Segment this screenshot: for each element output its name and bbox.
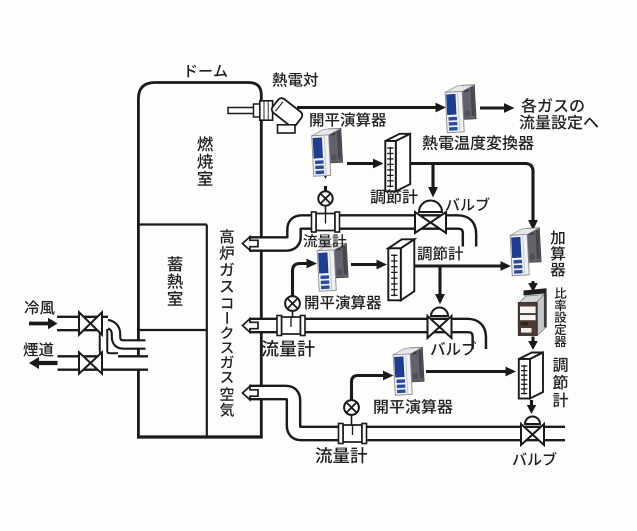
signal: adder M3 down to ratio setter R1 <box>531 281 534 285</box>
signal: M5 to controller B3 <box>426 370 508 373</box>
transmitter D3 (circle-X) on F3 <box>344 400 359 415</box>
arrowhead into M4 <box>307 259 318 269</box>
signal: M1 to gas flow setting <box>480 106 506 109</box>
label: 流量設定へ (to flow setting of each gas) <box>520 115 599 130</box>
arrowhead into V3 dome <box>527 405 536 414</box>
label: 調節計 (controller B3) <box>553 358 568 408</box>
label: 冷風 (cold blast) <box>24 300 54 314</box>
pipe P1: blast furnace gas line <box>249 222 470 247</box>
module M4: square root extractor 2 (blue DIN unit) <box>317 243 349 291</box>
internal divider: vertical (gas column) <box>206 225 208 438</box>
control valve V2 (COG) with diaphragm <box>428 316 440 338</box>
label: 空気 (air) <box>220 387 234 417</box>
valve: flue butterfly valve <box>79 352 91 374</box>
signal: M4 to controller B2 <box>351 263 379 266</box>
signal branch: down to valve V2 <box>438 266 441 296</box>
label: 熱電対 (thermocouple) <box>273 72 318 86</box>
pipe P2: coke oven gas line <box>249 326 479 350</box>
label: 蓄熱室 (regenerator chamber) <box>167 256 182 305</box>
controller B3 (調節計) 3D slab with scale <box>519 353 543 360</box>
signal: R1 down to controller B3 <box>531 337 534 342</box>
arrowhead into M3 left <box>501 261 512 271</box>
signal: D3 to square root extractor M5 <box>352 376 387 402</box>
module M3: adder (blue DIN unit) <box>510 228 542 276</box>
label: バルブ (valve V3) <box>513 452 557 466</box>
stove bottom edge (thicker) <box>137 435 263 438</box>
controller B1 (調節計) 3D slab with scale <box>385 134 410 141</box>
open arrow: blast furnace gas into stove <box>243 237 259 251</box>
label: バルブ (valve V1) <box>446 197 490 211</box>
arrowhead into M5 <box>383 371 394 381</box>
signal: D1 up to M2 <box>324 186 327 192</box>
valve: cold blast butterfly valve <box>79 312 91 335</box>
label: バルブ (valve V2) <box>431 341 476 355</box>
arrowhead to text <box>504 103 515 113</box>
label: 高炉ガス (blast furnace gas) <box>220 229 234 292</box>
module M1: thermocouple temperature converter (blue DIN unit) <box>445 85 477 133</box>
label: 加算器 (adder) <box>550 230 565 276</box>
ratio setter R1 (比率設定器) dark unit <box>518 288 546 335</box>
label: 各ガスの <box>521 98 583 113</box>
signal: B3 down to valve V3 <box>530 400 533 406</box>
signal: B2 output to adder M3 <box>415 264 505 267</box>
arrow: cold blast in <box>29 318 58 329</box>
stem D3 to F3 <box>351 414 353 425</box>
flow meter F1 (blast furnace gas) <box>316 214 335 231</box>
arrowhead into B1 <box>373 159 384 169</box>
hot blast stove outer shell <box>138 83 261 438</box>
transmitter D1 (circle-X) on F1 <box>318 191 332 205</box>
arrowhead into R1 top <box>528 283 538 292</box>
open arrow: coke oven gas into stove <box>243 319 259 333</box>
transmitter D2 (circle-X) on F2 <box>285 296 300 311</box>
label: 熱電温度変換器 (TC temperature converter) <box>423 135 534 150</box>
thermocouple probe and head <box>228 96 304 133</box>
label: コークスガス (coke oven gas) <box>221 298 234 383</box>
arrowhead into M2 bottom <box>321 170 330 180</box>
stem D1 to F1 <box>325 205 327 214</box>
label: 流量計 (flow meter F3) <box>316 447 368 463</box>
internal divider: combustion/regenerator horizontal <box>138 223 206 225</box>
stem D2 to F2 <box>292 310 294 318</box>
module M2: square root extractor 1 (blue DIN unit) <box>311 128 343 176</box>
label: 開平演算器 (square root extractor 2) <box>305 295 381 310</box>
signal: thermocouple to temperature converter <box>297 106 438 109</box>
label: 燃焼室 (combustion chamber) <box>197 136 213 186</box>
label: 流量計 (flow meter F2) <box>262 340 315 357</box>
label: 調節計 (controller B1) <box>371 189 418 204</box>
arrowhead into adder M3 top <box>528 220 538 231</box>
arrowhead into B3 top <box>528 341 538 350</box>
open arrow: air into stove <box>243 386 259 400</box>
label: 調節計 (controller B2) <box>418 246 464 261</box>
label: 流量計 (flow meter F1) <box>303 234 346 247</box>
label: 開平演算器 (square root extractor 1) <box>310 112 386 127</box>
arrowhead into M1 <box>436 103 447 113</box>
internal divider: regenerator bottom <box>138 329 206 331</box>
module M5: square root extractor 3 (blue DIN unit) <box>393 347 425 395</box>
pipe: flue line <box>58 355 149 371</box>
control valve V1 (BFG) with diaphragm <box>415 212 431 233</box>
label: 比率設定器 (ratio setter) <box>554 287 566 347</box>
pipe P3: air line <box>249 393 565 434</box>
label: ドーム (dome) <box>187 65 227 77</box>
label: 開平演算器 (square root extractor 3) <box>374 399 452 414</box>
pipe: crossover from cold blast line down to flue line <box>104 329 119 357</box>
arrowhead into V2 dome <box>435 294 445 305</box>
signal: D2 to square root extractor M4 <box>293 264 310 297</box>
flow meter F3 (air) <box>343 425 362 442</box>
arrowhead into B3 left <box>506 367 517 377</box>
control valve V3 (air) with diaphragm <box>521 424 533 445</box>
flow meter F2 (coke oven gas) <box>282 317 301 334</box>
arrowhead into B2 <box>377 260 388 270</box>
signal: M2 square root extractor to controller B1 <box>347 162 375 165</box>
controller B2 (調節計) 3D slab with scale <box>388 239 414 248</box>
arrowhead into V1 dome <box>428 187 438 198</box>
pipe: cold blast S-bend into stove port <box>104 324 146 345</box>
pipe: cold blast main line <box>57 316 108 332</box>
arrow: flue out <box>29 357 58 369</box>
signal branch: down to valve V1 <box>431 164 434 190</box>
signal: B1 output to valve V1 branch and adder M3 <box>410 164 534 223</box>
label: 煙道 (flue) <box>23 342 53 356</box>
